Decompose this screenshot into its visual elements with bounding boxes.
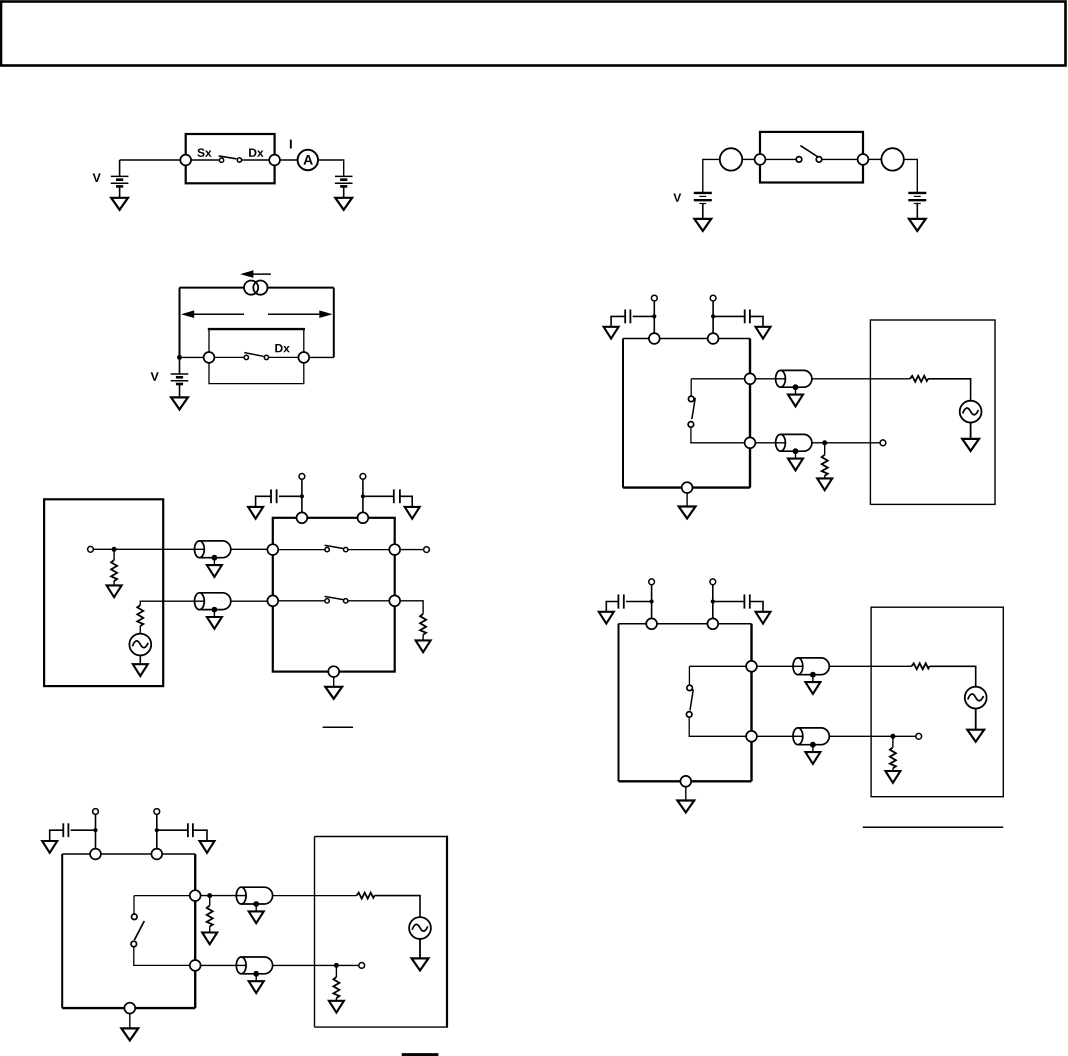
terminal bottom bbox=[124, 1003, 135, 1014]
wire meter to box bbox=[742, 158, 754, 160]
ground bbox=[121, 1028, 138, 1040]
capacitor C6 plates bbox=[743, 594, 745, 608]
wire terminal to switch bbox=[278, 549, 325, 551]
junction dot left pin bbox=[93, 828, 97, 832]
ground bbox=[599, 612, 614, 624]
internal stub to switch bbox=[688, 666, 690, 685]
wire source to ground bbox=[975, 709, 977, 730]
wire dot to capacitor C8 bbox=[157, 829, 188, 831]
DUT box bbox=[62, 854, 195, 1008]
pin circle left bbox=[651, 295, 657, 301]
terminal right upper bbox=[746, 661, 757, 672]
wire coax to box bbox=[231, 548, 268, 550]
pin stub right bbox=[156, 814, 158, 849]
ground bbox=[335, 198, 352, 210]
terminal right bbox=[858, 154, 869, 165]
terminal top-left bbox=[90, 849, 101, 860]
terminal right lower bbox=[746, 731, 757, 742]
wire terminal to coax 1 bbox=[755, 378, 776, 380]
label V bbox=[93, 173, 101, 182]
lower wire from source bbox=[140, 601, 194, 605]
wire battery stem left bbox=[119, 160, 121, 176]
wire terminal to load bbox=[400, 601, 423, 614]
coax 2 bbox=[775, 434, 812, 470]
wire resistor to ground bbox=[209, 927, 211, 933]
wire resistor to ground bbox=[113, 581, 115, 585]
ground bbox=[202, 933, 217, 945]
wire switch to Dx bbox=[242, 159, 270, 161]
terminal top-right bbox=[707, 618, 718, 629]
ground bbox=[909, 219, 926, 231]
junction dot right pin bbox=[711, 314, 715, 318]
span arrowhead left bbox=[181, 310, 194, 318]
wire dot to capacitor C7 bbox=[71, 829, 96, 831]
wire C5 to ground bbox=[606, 602, 618, 612]
wire dot to capacitor C3 bbox=[279, 495, 302, 497]
wire terminal to coax 1 bbox=[757, 665, 793, 667]
switch contact bottom bbox=[688, 422, 694, 428]
switch S8 blade bbox=[134, 921, 144, 940]
wire V source to box bbox=[120, 159, 181, 161]
internal stub to switch bbox=[133, 896, 135, 914]
load resistor R5 bbox=[420, 614, 426, 635]
switch S6 blade bbox=[325, 596, 344, 599]
ground bbox=[679, 507, 696, 519]
open circle probe bbox=[880, 440, 886, 446]
switch S3 blade bbox=[244, 353, 263, 357]
switch S4 blade bbox=[692, 398, 696, 420]
terminal left upper bbox=[267, 544, 278, 555]
wire ammeter to right battery bbox=[318, 160, 344, 176]
ground bbox=[677, 801, 694, 813]
signal generator bbox=[129, 634, 151, 656]
caption underline bbox=[323, 726, 354, 728]
battery right bbox=[908, 193, 926, 204]
wire C4 to ground bbox=[400, 496, 412, 507]
wire junction to battery bbox=[179, 357, 181, 374]
capacitor C3 plates bbox=[276, 489, 278, 503]
terminal right upper bbox=[389, 544, 400, 555]
wire coax to resistor R6 bbox=[829, 665, 911, 667]
switch contact right bbox=[816, 157, 822, 163]
switch S5 blade bbox=[325, 545, 344, 548]
pin circle right bbox=[360, 474, 366, 480]
wire bottom terminal to ground bbox=[129, 1014, 131, 1029]
terminal right lower bbox=[389, 595, 400, 606]
junction dot bbox=[822, 440, 827, 445]
resistor R6 bbox=[912, 663, 930, 669]
signal generator bbox=[960, 401, 982, 423]
wire bottom terminal to ground bbox=[686, 493, 688, 507]
terminal right lower bbox=[745, 437, 756, 448]
current meter circle left bbox=[244, 281, 258, 295]
switch contact left bbox=[325, 547, 329, 551]
label V bbox=[673, 194, 681, 202]
internal wire lower bbox=[691, 427, 745, 443]
switch contact right bbox=[237, 158, 241, 162]
switch contact top bbox=[688, 396, 694, 402]
terminal top-left bbox=[649, 333, 660, 344]
wire Sx to switch bbox=[191, 159, 219, 161]
resistor R1 bbox=[910, 376, 928, 382]
switch contact left bbox=[796, 157, 802, 163]
source resistor R3 bbox=[113, 549, 115, 560]
wire dot to capacitor C1 bbox=[633, 315, 655, 317]
terminal top-left bbox=[646, 618, 657, 629]
internal wire lower bbox=[134, 947, 190, 966]
junction dot right pin bbox=[155, 828, 159, 832]
network analyzer box bbox=[871, 607, 1003, 797]
terminal top-left bbox=[297, 512, 308, 523]
terminal right lower bbox=[190, 960, 201, 971]
current direction arrow bbox=[250, 273, 271, 275]
wire terminal to coax 2 bbox=[755, 442, 776, 444]
capacitor C8 plates bbox=[187, 823, 189, 837]
switch S1 blade bbox=[219, 156, 237, 159]
wire resistor to ground bbox=[892, 768, 894, 771]
label Sx bbox=[197, 148, 211, 157]
junction dot left pin bbox=[652, 314, 656, 318]
termination resistor R7 bbox=[892, 736, 894, 747]
terminal right bbox=[298, 352, 309, 363]
junction dot bbox=[890, 734, 895, 739]
coax 2 bbox=[193, 593, 230, 629]
switch contact left bbox=[325, 599, 329, 603]
wire generator to ground bbox=[139, 655, 141, 664]
meter circle right bbox=[881, 148, 903, 170]
switch contact top bbox=[687, 685, 693, 691]
ground bbox=[248, 507, 263, 519]
ground bbox=[694, 219, 711, 231]
switch contact bottom bbox=[131, 941, 137, 947]
page title frame bbox=[1, 2, 1066, 66]
wire C7 to ground bbox=[50, 830, 64, 841]
wire junction to box bbox=[180, 356, 204, 358]
pin circle left bbox=[93, 809, 99, 815]
DUT box bbox=[208, 329, 305, 384]
wire dot to capacitor C6 bbox=[713, 601, 745, 603]
DUT box bbox=[273, 518, 395, 672]
wire dot to capacitor C5 bbox=[626, 601, 652, 603]
ground bbox=[200, 841, 215, 853]
coax 2 bbox=[792, 728, 829, 764]
capacitor C1 plates bbox=[629, 310, 631, 324]
ground bbox=[412, 958, 429, 970]
open circle probe bbox=[916, 733, 922, 739]
wire resistor to ground bbox=[824, 476, 826, 479]
span arrowhead right bbox=[319, 310, 332, 318]
terminal top-right bbox=[708, 333, 719, 344]
terminal top-right bbox=[358, 512, 369, 523]
wire resistor to ground bbox=[422, 635, 424, 641]
wire C6 to ground bbox=[750, 602, 763, 612]
wire coax to box bbox=[231, 600, 268, 602]
switch contact right bbox=[264, 355, 268, 359]
current meter circle right bbox=[253, 281, 267, 295]
internal wire upper bbox=[689, 665, 746, 667]
wire terminal to coax 2 bbox=[201, 964, 237, 966]
internal wire lower bbox=[689, 717, 746, 736]
wire meter to right battery bbox=[904, 159, 918, 193]
wire box to meter bbox=[868, 158, 881, 160]
resistor R9 bbox=[357, 893, 375, 899]
terminal bottom bbox=[328, 666, 339, 677]
loop wire left vertical bbox=[179, 288, 181, 358]
wire battery to ground bbox=[916, 204, 918, 219]
DUT box bbox=[619, 624, 752, 782]
wire terminal to switch bbox=[214, 356, 244, 358]
wire C1 to ground bbox=[611, 316, 625, 326]
wire coax to open circle bbox=[829, 735, 916, 737]
pin stub left bbox=[653, 301, 655, 333]
network analyzer box bbox=[315, 836, 449, 1027]
DUT box bbox=[760, 132, 863, 183]
pin stub right bbox=[362, 479, 364, 512]
switch contact right bbox=[344, 547, 348, 551]
wire Dx to ammeter bbox=[280, 159, 298, 161]
pin circle left bbox=[299, 474, 305, 480]
pin stub left bbox=[95, 814, 97, 849]
caption overline fragment bbox=[402, 1053, 439, 1056]
wire coax to open circle bbox=[812, 442, 880, 444]
ground bbox=[962, 439, 979, 451]
ground bbox=[405, 507, 420, 519]
wire source to ground bbox=[419, 939, 421, 959]
pin stub right bbox=[712, 585, 714, 619]
open circle probe bbox=[359, 963, 365, 969]
wire terminal to switch bbox=[278, 600, 325, 602]
wire C8 to ground bbox=[193, 830, 207, 841]
wire left battery to meter bbox=[703, 159, 720, 192]
ground bbox=[171, 397, 188, 409]
wire terminal to switch bbox=[765, 158, 796, 160]
loop wire right vertical bbox=[333, 288, 335, 358]
wire coax to resistor R9 bbox=[273, 895, 357, 897]
terminal bottom bbox=[682, 482, 693, 493]
wire terminal to loop bbox=[309, 356, 334, 358]
wire switch to terminal bbox=[269, 356, 299, 358]
wire switch to terminal bbox=[348, 600, 389, 602]
wire terminal to ground bbox=[333, 677, 335, 687]
junction dot left pin bbox=[650, 599, 654, 603]
terminal left lower bbox=[267, 595, 278, 606]
wire C2 to ground bbox=[750, 316, 763, 326]
signal source box bbox=[44, 499, 163, 686]
junction dot bbox=[112, 547, 117, 552]
caption underline bbox=[863, 826, 1004, 828]
span arrow shaft right bbox=[268, 313, 321, 315]
pin circle right bbox=[154, 809, 160, 815]
ground bbox=[967, 730, 984, 742]
wire bottom terminal to ground bbox=[685, 787, 687, 801]
top loop wire left bbox=[180, 287, 245, 289]
junction dot right pin bbox=[711, 599, 715, 603]
capacitor C7 plates bbox=[67, 823, 69, 837]
current meter outlines bbox=[244, 281, 258, 295]
switch contact right bbox=[344, 599, 348, 603]
terminal left bbox=[755, 154, 766, 165]
terminal Sx bbox=[180, 155, 191, 166]
battery right bbox=[335, 176, 353, 186]
wire coax to resistor R1 bbox=[812, 378, 910, 380]
ground bbox=[42, 841, 57, 853]
battery V2 bbox=[694, 193, 712, 204]
wire dot to capacitor C4 bbox=[363, 495, 394, 497]
ground bbox=[133, 664, 148, 676]
switch S7 blade bbox=[690, 690, 693, 711]
internal stub to switch bbox=[690, 379, 692, 396]
ammeter A bbox=[298, 150, 318, 170]
wire battery to ground bbox=[343, 186, 345, 197]
network analyzer box bbox=[870, 320, 995, 504]
meter circle left bbox=[720, 148, 742, 170]
battery V3 bbox=[171, 374, 189, 384]
wire terminal to coax 2 bbox=[757, 735, 793, 737]
switch contact bottom bbox=[686, 712, 692, 718]
ground bbox=[107, 585, 122, 597]
internal wire upper bbox=[691, 378, 745, 380]
internal wire upper bbox=[134, 895, 190, 897]
terminal left bbox=[204, 352, 215, 363]
coax 1 bbox=[235, 887, 272, 923]
capacitor C5 plates bbox=[623, 594, 625, 608]
junction dot source termination bbox=[207, 893, 212, 898]
ground bbox=[329, 1001, 344, 1013]
termination resistor R2 bbox=[824, 443, 826, 455]
coax 1 bbox=[193, 541, 230, 577]
terminal right upper bbox=[745, 373, 756, 384]
terminal bottom bbox=[680, 776, 691, 787]
generator resistor R4 bbox=[137, 605, 143, 626]
switch contact top bbox=[132, 914, 138, 920]
wire battery to ground bbox=[119, 186, 121, 197]
wire dot to capacitor C2 bbox=[713, 315, 745, 317]
pin stub right bbox=[712, 301, 714, 333]
open circle input bbox=[88, 546, 94, 552]
wire terminal to open circle bbox=[400, 549, 424, 551]
wire terminal to coax 1 bbox=[201, 895, 237, 897]
coax 2 bbox=[235, 957, 272, 993]
terminal right upper bbox=[190, 890, 201, 901]
wire C3 to ground bbox=[256, 496, 271, 507]
wire battery to ground bbox=[179, 384, 181, 397]
wire coax to open circle bbox=[273, 964, 359, 966]
label Dx bbox=[249, 149, 263, 157]
open circle output bbox=[424, 547, 430, 553]
switch contact left bbox=[244, 355, 248, 359]
ground bbox=[416, 640, 431, 652]
label V bbox=[151, 372, 159, 381]
termination resistor R8 bbox=[209, 896, 211, 906]
junction dot bbox=[361, 494, 365, 498]
wire resistor to generator bbox=[139, 626, 141, 634]
termination resistor R10 bbox=[335, 965, 337, 977]
DUT box bbox=[186, 134, 275, 183]
span arrow shaft left bbox=[193, 313, 244, 315]
pin circle right bbox=[710, 295, 716, 301]
switch S2 blade bbox=[800, 146, 819, 158]
junction dot bbox=[300, 494, 304, 498]
wire switch to terminal bbox=[348, 549, 389, 551]
wire resistor to ground bbox=[335, 998, 337, 1001]
ground bbox=[885, 771, 900, 783]
ground bbox=[325, 687, 342, 699]
ground bbox=[756, 612, 771, 624]
wire source to ground bbox=[970, 423, 972, 439]
coax 1 bbox=[775, 370, 812, 406]
junction dot bbox=[334, 963, 339, 968]
battery V1 bbox=[111, 176, 129, 186]
label Dx bbox=[275, 344, 289, 352]
ground bbox=[817, 478, 832, 490]
pin circle right bbox=[710, 579, 716, 585]
DUT box bbox=[623, 339, 750, 488]
ground bbox=[604, 327, 619, 339]
wire battery to ground bbox=[702, 204, 704, 219]
pin stub left bbox=[301, 479, 303, 512]
signal generator bbox=[409, 917, 431, 939]
junction dot bbox=[177, 355, 182, 360]
signal generator bbox=[965, 687, 987, 709]
capacitor C4 plates bbox=[393, 489, 395, 503]
wire input to coax 1 bbox=[93, 548, 194, 550]
top loop wire right bbox=[268, 287, 334, 289]
label I bbox=[290, 140, 292, 149]
wire switch to terminal bbox=[822, 158, 858, 160]
terminal top-right bbox=[151, 849, 162, 860]
ground bbox=[756, 327, 771, 339]
coax 1 bbox=[792, 658, 829, 694]
pin stub left bbox=[651, 585, 653, 619]
switch contact left bbox=[219, 158, 223, 162]
terminal Dx bbox=[269, 155, 280, 166]
wire resistor to source corner bbox=[375, 896, 421, 917]
wire resistor to source corner bbox=[928, 379, 971, 401]
pin circle left bbox=[649, 579, 655, 585]
ground bbox=[111, 198, 128, 210]
wire resistor to source corner bbox=[930, 666, 976, 686]
capacitor C2 plates bbox=[744, 310, 746, 324]
